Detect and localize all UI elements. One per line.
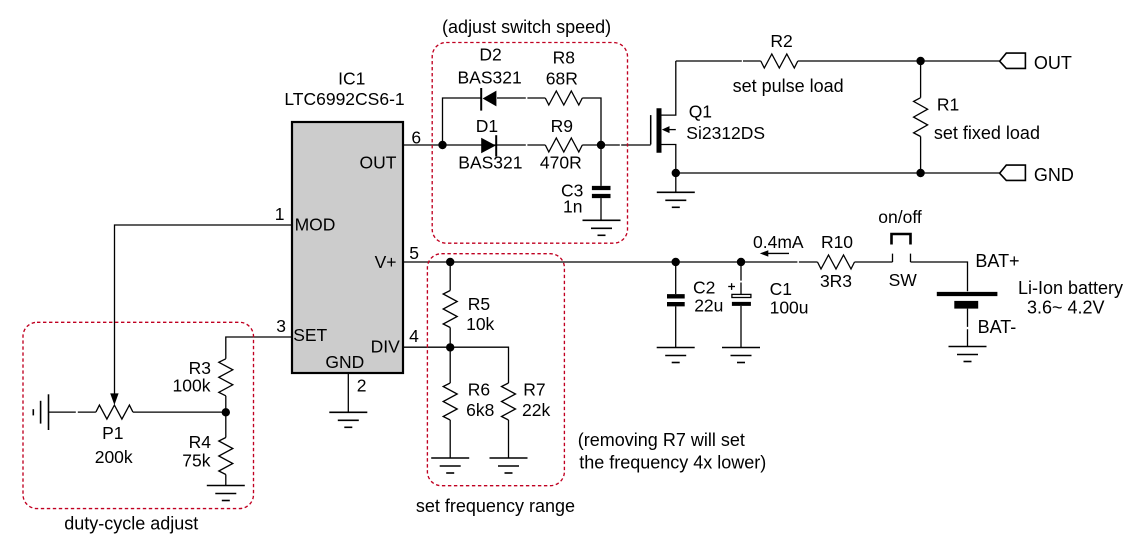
transistor Q1 label [689, 101, 712, 121]
switch SW label [889, 270, 918, 290]
wire R9 to Q1 gate [582, 144, 650, 146]
battery wire to ground [967, 309, 969, 347]
annotation removing R7 line2 [579, 453, 766, 473]
IC IC1 LTC6992CS6-1 body [292, 122, 403, 373]
svg-text:C1: C1 [770, 279, 792, 299]
wire SET pin3 to R3 [226, 337, 292, 359]
switch SW label on/off [878, 207, 922, 227]
annotation removing R7 line1 [578, 430, 745, 450]
current arrow 0.4mA [760, 250, 789, 256]
node R1 bottom junction [916, 169, 924, 177]
annotation 0.4mA [753, 232, 804, 252]
resistor R2 label [770, 31, 792, 51]
wire top rail drain to R2 [676, 60, 761, 62]
wire up-branch to D2 [443, 98, 482, 145]
ground Q1 source [657, 192, 695, 207]
svg-text:LTC6992CS6-1: LTC6992CS6-1 [284, 89, 404, 109]
svg-text:R6: R6 [468, 380, 490, 400]
terminal OUT label [1034, 53, 1072, 73]
resistor R8 [545, 91, 582, 105]
pin label MOD [295, 214, 336, 234]
svg-text:P1: P1 [102, 423, 123, 443]
ground battery [949, 347, 987, 362]
pin number 5 [409, 243, 419, 263]
resistor R1 [914, 98, 928, 137]
capacitor C3 value 1n [563, 197, 582, 217]
transistor Q1 gate plate [650, 115, 652, 144]
transistor Q1 value Si2312DS [686, 123, 765, 143]
ground C3 [583, 220, 621, 235]
svg-text:D1: D1 [476, 116, 498, 136]
svg-text:3R3: 3R3 [820, 271, 852, 291]
svg-text:set frequency range: set frequency range [416, 496, 575, 516]
battery label BAT- [978, 317, 1017, 337]
svg-text:0.4mA: 0.4mA [753, 232, 804, 252]
node P1 wiper junction [222, 408, 230, 416]
terminal GND connector [1000, 165, 1026, 180]
pin number 2 [357, 375, 367, 395]
resistor R7 [502, 383, 516, 420]
svg-text:R4: R4 [189, 432, 212, 452]
capacitor C1 wire top [740, 262, 742, 294]
svg-text:D2: D2 [479, 45, 501, 65]
resistor R9 label [551, 116, 573, 136]
wire pin6 OUT to R9 [403, 144, 545, 146]
annotation duty-cycle adjust [64, 514, 198, 534]
resistor R1 lead top [920, 61, 922, 98]
pin label OUT [360, 152, 397, 172]
svg-text:(removing R7 will set: (removing R7 will set [578, 430, 745, 450]
svg-text:3: 3 [276, 316, 286, 336]
resistor R9 value 470R [540, 153, 582, 173]
svg-text:OUT: OUT [1034, 53, 1072, 73]
resistor R5 [443, 291, 457, 328]
node DIV junction [446, 343, 454, 351]
node R5 top junction [446, 258, 454, 266]
annotation set frequency range [416, 496, 575, 516]
resistor R5 lead bottom [449, 328, 451, 348]
resistor R8 value 68R [546, 69, 578, 89]
resistor R3 value 100k [173, 376, 211, 396]
svg-text:100u: 100u [770, 298, 809, 318]
resistor R4 [219, 438, 233, 475]
resistor R5 label [468, 294, 490, 314]
wire DIV pin4 to node [403, 346, 450, 348]
svg-text:C2: C2 [693, 277, 715, 297]
svg-text:R10: R10 [821, 232, 853, 252]
wire V+ rail pin5 to R10 [403, 261, 818, 263]
svg-text:BAT-: BAT- [978, 317, 1017, 337]
transistor Q1 body arrow [662, 126, 676, 133]
pin number 3 [276, 316, 286, 336]
annotation adjust switch speed [442, 17, 611, 37]
resistor R4 value 75k [182, 451, 210, 471]
capacitor C3 plates [592, 188, 611, 196]
capacitor C1 wire bottom [740, 306, 742, 348]
resistor R7 label [523, 380, 545, 400]
ground P1 left (rotated) [33, 394, 48, 430]
resistor R5 value 10k [466, 314, 494, 334]
svg-text:BAS321: BAS321 [457, 68, 521, 88]
svg-text:SET: SET [293, 325, 327, 345]
svg-text:R1: R1 [937, 94, 959, 114]
dashed box duty-cycle adjust [23, 322, 254, 508]
capacitor C1 plus sign [728, 283, 735, 290]
ground IC pin2 [329, 412, 367, 427]
wire R3 to R4 [225, 396, 227, 438]
transistor Q1 source stub [658, 145, 675, 174]
ground R4 [207, 486, 245, 501]
ground C1 [722, 348, 760, 363]
resistor R3 label [189, 358, 211, 378]
node R1 top junction [916, 57, 924, 65]
capacitor C1 label [770, 279, 792, 299]
svg-text:on/off: on/off [878, 207, 922, 227]
svg-text:GND: GND [1034, 165, 1074, 185]
resistor R6 [443, 383, 457, 420]
diode D2 BAS321 [481, 88, 496, 111]
wire R10 to switch [855, 261, 893, 263]
resistor R3 [219, 359, 233, 396]
resistor R10 value 3R3 [820, 271, 852, 291]
pin label DIV [371, 337, 401, 357]
wire Q1 source to ground [675, 173, 677, 192]
resistor R7 value 22k [522, 400, 550, 420]
resistor R9 [545, 138, 582, 152]
svg-text:200k: 200k [95, 447, 133, 467]
capacitor C3 wire top [600, 145, 602, 186]
resistor R10 [818, 255, 855, 269]
svg-text:470R: 470R [540, 153, 582, 173]
wire switch to battery [911, 262, 968, 291]
ground R6 [431, 458, 469, 473]
capacitor C1 value 100u [770, 298, 809, 318]
dashed box adjust switch speed [432, 43, 627, 244]
resistor R1 lead bottom [920, 137, 922, 174]
svg-text:1n: 1n [563, 197, 582, 217]
svg-text:BAS321: BAS321 [458, 153, 522, 173]
svg-text:Q1: Q1 [689, 101, 712, 121]
diode D1 value BAS321 [458, 153, 522, 173]
ground R7 [490, 458, 528, 473]
svg-text:R9: R9 [551, 116, 573, 136]
svg-text:set pulse load: set pulse load [733, 76, 844, 96]
battery BAT top plate [937, 292, 998, 296]
capacitor C1 top plate [732, 294, 751, 297]
svg-text:22k: 22k [522, 400, 550, 420]
terminal GND label [1034, 165, 1074, 185]
resistor R1 label [937, 94, 959, 114]
battery label BAT+ [975, 251, 1019, 271]
resistor R10 label [821, 232, 853, 252]
annotation set fixed load [934, 123, 1040, 143]
pin number 1 [275, 204, 285, 224]
diode D2 label [479, 45, 501, 65]
capacitor C1 bottom plate [732, 302, 751, 306]
svg-text:5: 5 [409, 243, 419, 263]
svg-text:1: 1 [275, 204, 285, 224]
svg-text:BAT+: BAT+ [975, 251, 1019, 271]
svg-text:3.6~ 4.2V: 3.6~ 4.2V [1027, 298, 1105, 318]
wire top rail R2 to OUT terminal [798, 60, 1000, 62]
svg-text:DIV: DIV [371, 337, 401, 357]
svg-text:75k: 75k [182, 451, 210, 471]
switch SW stubs [893, 254, 911, 262]
node R9-C3 junction [597, 141, 605, 149]
svg-text:set fixed load: set fixed load [934, 123, 1040, 143]
svg-text:SW: SW [889, 270, 918, 290]
node C2 junction [672, 258, 680, 266]
battery BAT bottom plate [954, 301, 978, 309]
wire node to R7 top [450, 347, 508, 383]
pin number 6 [411, 128, 421, 148]
dashed box set frequency range [427, 254, 564, 486]
terminal OUT connector [1000, 53, 1026, 68]
pin number 4 [409, 326, 419, 346]
wire R8 down to node [582, 98, 601, 145]
svg-text:the frequency 4x lower): the frequency 4x lower) [579, 453, 766, 473]
pin label V+ [375, 252, 397, 272]
annotation set pulse load [733, 76, 844, 96]
resistor R6 value 6k8 [466, 400, 494, 420]
svg-text:68R: 68R [546, 69, 578, 89]
wire MOD pin1 to P1 wiper [110, 225, 292, 405]
capacitor C2 label [693, 277, 715, 297]
wire ground to P1 [49, 411, 96, 413]
wire P1 to R3/R4 node [133, 411, 226, 413]
transistor Q1 channel bar [657, 108, 662, 153]
resistor R2 [761, 54, 798, 68]
pin label SET [293, 325, 327, 345]
wire R7 to ground [508, 420, 510, 458]
IC1 value label LTC6992CS6-1 [284, 89, 404, 109]
transistor Q1 drain stub [658, 61, 675, 115]
capacitor C3 wire bottom [600, 198, 602, 220]
ground C2 [657, 348, 695, 363]
capacitor C2 wire top [675, 262, 677, 294]
svg-text:IC1: IC1 [338, 68, 365, 88]
switch SW actuator bracket [892, 234, 911, 245]
node pin6 junction [438, 141, 446, 149]
battery label Li-Ion battery [1018, 278, 1123, 298]
capacitor C2 wire bottom [675, 306, 677, 347]
svg-text:MOD: MOD [295, 214, 336, 234]
svg-text:2: 2 [357, 375, 367, 395]
IC1 reference label [338, 68, 365, 88]
svg-text:100k: 100k [173, 376, 211, 396]
resistor R8 label [553, 47, 575, 67]
capacitor C2 value 22u [694, 295, 723, 315]
diode D1 label [476, 116, 498, 136]
svg-text:4: 4 [409, 326, 419, 346]
svg-text:22u: 22u [694, 295, 723, 315]
node C1 junction [737, 258, 745, 266]
potentiometer P1 [96, 405, 133, 419]
node Q1 source junction [672, 169, 680, 177]
battery label voltage [1027, 298, 1105, 318]
wire node to R6 top [449, 347, 451, 383]
svg-text:Li-Ion battery: Li-Ion battery [1018, 278, 1123, 298]
svg-text:R7: R7 [523, 380, 545, 400]
svg-text:6k8: 6k8 [466, 400, 494, 420]
svg-text:R2: R2 [770, 31, 792, 51]
diode D2 value BAS321 [457, 68, 521, 88]
svg-text:OUT: OUT [360, 152, 397, 172]
wire R6 to ground [449, 420, 451, 458]
svg-text:duty-cycle adjust: duty-cycle adjust [64, 514, 198, 534]
svg-text:R8: R8 [553, 47, 575, 67]
svg-text:V+: V+ [375, 252, 397, 272]
wire bottom rail GND [676, 172, 1000, 174]
svg-text:Si2312DS: Si2312DS [686, 123, 765, 143]
wire D2 to R8 [497, 97, 545, 99]
potentiometer P1 value 200k [95, 447, 133, 467]
capacitor C2 plates [667, 296, 685, 304]
resistor R4 label [189, 432, 212, 452]
svg-text:(adjust switch speed): (adjust switch speed) [442, 17, 611, 37]
svg-text:10k: 10k [466, 314, 494, 334]
svg-text:R5: R5 [468, 294, 490, 314]
resistor R6 label [468, 380, 490, 400]
pin label GND [325, 352, 364, 372]
diode D1 BAS321 [481, 135, 496, 156]
wire R4 to ground [225, 475, 227, 486]
svg-text:GND: GND [325, 352, 364, 372]
resistor R5 lead top [449, 262, 451, 291]
capacitor C3 label [561, 181, 583, 201]
wire IC pin2 to ground [347, 373, 349, 412]
potentiometer P1 label [102, 423, 123, 443]
